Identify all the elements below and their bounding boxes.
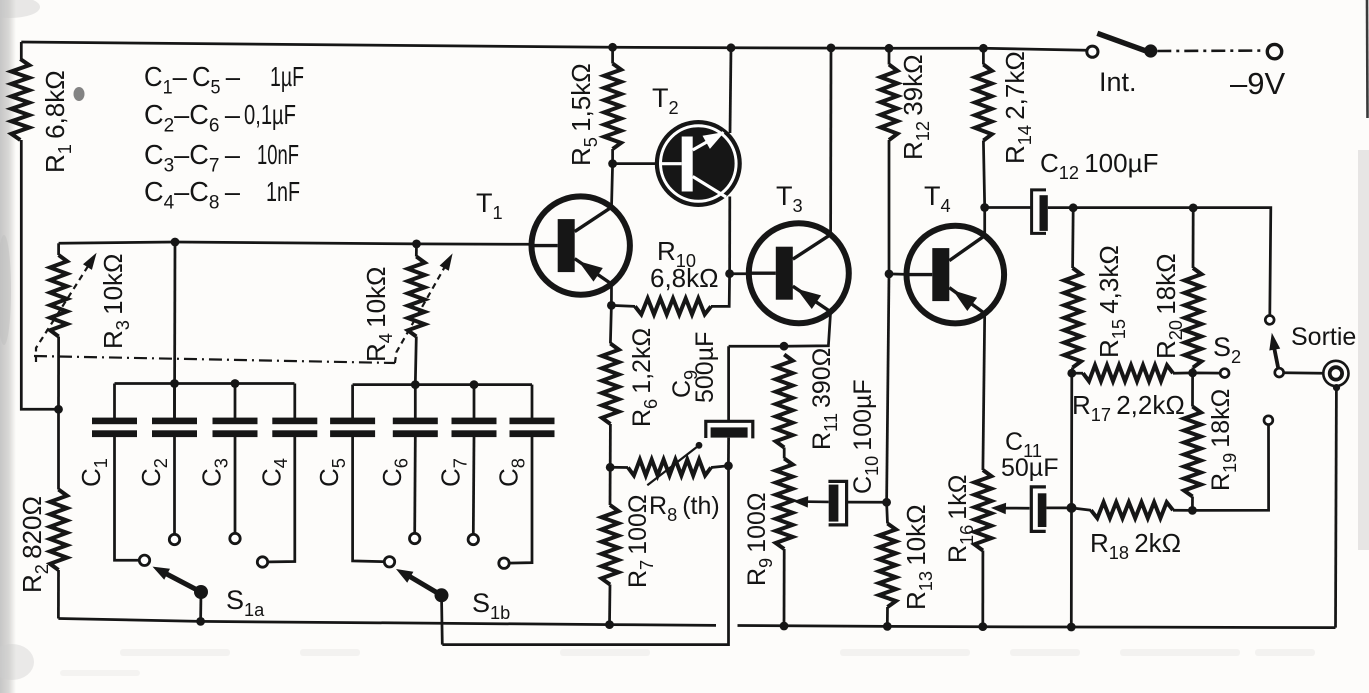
node R12 top rail [885, 44, 894, 53]
wire R9 wiper from C10 [800, 500, 829, 503]
node R13 ground [883, 622, 892, 631]
svg-text:R1 6,8kΩ: R1 6,8kΩ [40, 70, 75, 173]
wire S2 pole to output jack [1284, 371, 1323, 374]
node R11 top [780, 342, 789, 351]
svg-text:6,8kΩ: 6,8kΩ [650, 263, 719, 293]
wire left edge drop from rail to R1/R3/R2 node [20, 42, 23, 59]
transistor T2 (inverted style) [652, 83, 742, 207]
node R5 bottom / T1 collector / T2 base [608, 159, 617, 168]
resistor R9 100 ohm variable [743, 448, 793, 627]
transistor T4 [907, 226, 1005, 324]
svg-text:R5 1,5kΩ: R5 1,5kΩ [566, 63, 601, 166]
resistor R3 10k variable [50, 243, 133, 409]
wire jack shell to ground bus [1334, 390, 1338, 628]
svg-text:R20 18kΩ: R20 18kΩ [1151, 253, 1186, 359]
svg-text:C12 100µF: C12 100µF [1040, 148, 1158, 183]
node T4 base [885, 270, 894, 279]
capacitor C1 [76, 384, 150, 566]
node R1/R2/R3 junction [54, 405, 63, 414]
wire T2 emitter up to rail [730, 48, 731, 133]
wire dash-dot gang link R3-R4 [34, 356, 395, 363]
node S1a ground [196, 617, 205, 626]
node R14 top rail [979, 44, 988, 53]
node T3 base / R10 [725, 269, 734, 278]
node T1 emitter / R10 [607, 301, 616, 310]
node C3 bus [231, 379, 240, 388]
capacitor C10 100uF [828, 379, 886, 525]
resistor R13 10k [879, 502, 936, 626]
wire feedback loop S1b to C9/R8 node [442, 466, 728, 645]
wire R15 line down to C11 node and ground [1070, 373, 1073, 627]
resistor R12 39k [881, 48, 933, 274]
wire T1 collector up to R5 node [612, 164, 613, 208]
node C11/R18/R15 line [1067, 503, 1077, 513]
node R15 line ground [1067, 623, 1076, 632]
wire capacitor bank 2 top bus [353, 383, 532, 386]
node R4 top [412, 240, 421, 249]
capacitor C3 [197, 384, 258, 544]
resistor R6 1,2k [602, 328, 661, 467]
svg-text:R13 10kΩ: R13 10kΩ [901, 504, 936, 610]
wire R3 wiper dashed arrow [36, 262, 91, 362]
wire R5 to T2 base [613, 162, 656, 165]
wire T4 emitter down to R16 [983, 314, 985, 470]
svg-text:R14 2,7kΩ: R14 2,7kΩ [1000, 51, 1035, 164]
node C2 bus [170, 379, 179, 388]
wire ground bottom bus [58, 619, 716, 626]
svg-text:R4 10kΩ: R4 10kΩ [361, 267, 396, 362]
svg-text:10nF: 10nF [257, 139, 299, 170]
node C7 bus [470, 380, 479, 389]
resistor R1 6,8k [11, 59, 75, 173]
wire T2 collector down to T3 base node [728, 197, 731, 274]
resistor R18 2k [1072, 502, 1193, 563]
svg-text:R18 2kΩ: R18 2kΩ [1090, 528, 1181, 563]
svg-text:R9 100Ω: R9 100Ω [743, 492, 776, 586]
resistor R17 2,2k [1072, 365, 1220, 425]
svg-text:R8 (th): R8 (th) [649, 492, 720, 525]
node R20/R17/R19 [1188, 369, 1197, 378]
wire C12 output line [1048, 208, 1271, 316]
node C9/R8 junction [724, 461, 733, 470]
terminal -9V [1230, 44, 1285, 101]
capacitor C12 100uF [985, 148, 1159, 233]
svg-text:R11 390Ω: R11 390Ω [808, 348, 841, 450]
svg-text:R12 39kΩ: R12 39kΩ [898, 54, 933, 160]
wire T3 base [730, 272, 749, 275]
svg-text:R6 1,2kΩ: R6 1,2kΩ [628, 328, 661, 427]
wire capacitor bank 1 top bus [115, 382, 295, 385]
capacitor C6 [377, 385, 438, 544]
switch S2 [1213, 316, 1284, 425]
svg-text:50µF: 50µF [1001, 454, 1058, 482]
wire T3 emitter to R11 [729, 312, 831, 347]
svg-text:R2 820Ω: R2 820Ω [17, 496, 52, 593]
node C10 / R13 / T4 base line [882, 498, 891, 507]
node C6/R4 bus [411, 380, 420, 389]
svg-text:R3 10kΩ: R3 10kΩ [98, 254, 133, 349]
node R15/R17 [1067, 369, 1076, 378]
node R9 ground [780, 622, 789, 631]
resistor R11 390 ohm [776, 348, 841, 450]
transistor T3 [749, 223, 849, 323]
wire T4 collector up [983, 208, 986, 236]
resistor R15 4,3k [1064, 208, 1129, 373]
resistor R20 18k [1151, 208, 1202, 373]
node R14/C12/T4 collector [980, 203, 989, 212]
switch Int. on/off [1087, 33, 1157, 97]
legend capacitor values [144, 61, 304, 213]
resistor R16 1k variable [944, 470, 991, 627]
node R18/R19 [1188, 506, 1197, 515]
wire -9V top supply rail [21, 42, 1087, 50]
wire T1 emitter down [610, 284, 611, 344]
node R20 top [1189, 204, 1198, 213]
capacitor C2 [136, 384, 197, 545]
capacitor C5 [314, 385, 395, 567]
capacitor C8 [494, 385, 555, 569]
svg-text:R17 2,2kΩ: R17 2,2kΩ [1072, 390, 1185, 425]
resistor R19 18k [1184, 373, 1240, 511]
resistor R5 1,5k [566, 47, 621, 166]
resistor R14 2,7k [975, 48, 1035, 207]
wire dash-dot to battery terminal [1157, 49, 1261, 52]
svg-text:500µF: 500µF [691, 332, 719, 403]
capacitor C9 500uF [668, 332, 753, 466]
switch S1b [396, 569, 510, 645]
node R16 ground [978, 622, 987, 631]
node R6/R7/R8 [606, 463, 615, 472]
wire T1 base line [59, 242, 532, 244]
svg-text:Int.: Int. [1099, 67, 1137, 97]
wire R4 wiper dashed arrow [395, 263, 447, 363]
capacitor C11 50uF [1001, 428, 1072, 531]
resistor R10 6,8k [611, 236, 729, 314]
wire R18/R19 node to S2 lower contact [1192, 425, 1268, 510]
svg-text:Sortie: Sortie [1291, 323, 1356, 351]
connector Sortie output jack [1291, 323, 1356, 391]
svg-text:R19 18kΩ: R19 18kΩ [1207, 389, 1240, 491]
capacitor C4 [256, 384, 317, 568]
wire R12 node down to R13 [887, 274, 889, 502]
node C2 column on base line [171, 238, 180, 247]
wire R16 wiper to C11 [999, 507, 1030, 510]
svg-text:1µF: 1µF [270, 61, 304, 92]
wire C2 column to base line [173, 242, 176, 418]
node R7 ground [605, 620, 614, 629]
node T2 collector rail [727, 43, 736, 52]
svg-text:0,1µF: 0,1µF [244, 99, 296, 130]
resistor R2 820 ohm [17, 409, 67, 618]
capacitor C7 [436, 385, 497, 545]
svg-text:R15 4,3kΩ: R15 4,3kΩ [1094, 245, 1129, 358]
resistor R8 thermistor [610, 442, 728, 525]
wire T4 base [889, 273, 907, 276]
svg-text:1nF: 1nF [266, 176, 300, 207]
resistor R7 100 ohm [602, 467, 657, 624]
node R15 top [1069, 203, 1078, 212]
switch S1a [153, 567, 266, 622]
transistor T1 [532, 196, 630, 294]
node T3 collector rail [827, 44, 836, 53]
wire T3 collector up to rail [829, 48, 832, 235]
node R5 top rail [608, 43, 617, 52]
svg-text:–9V: –9V [1230, 66, 1285, 101]
svg-text:C10 100µF: C10 100µF [849, 379, 882, 494]
svg-text:R16 1kΩ: R16 1kΩ [944, 475, 977, 563]
resistor R4 10k variable [361, 244, 425, 385]
